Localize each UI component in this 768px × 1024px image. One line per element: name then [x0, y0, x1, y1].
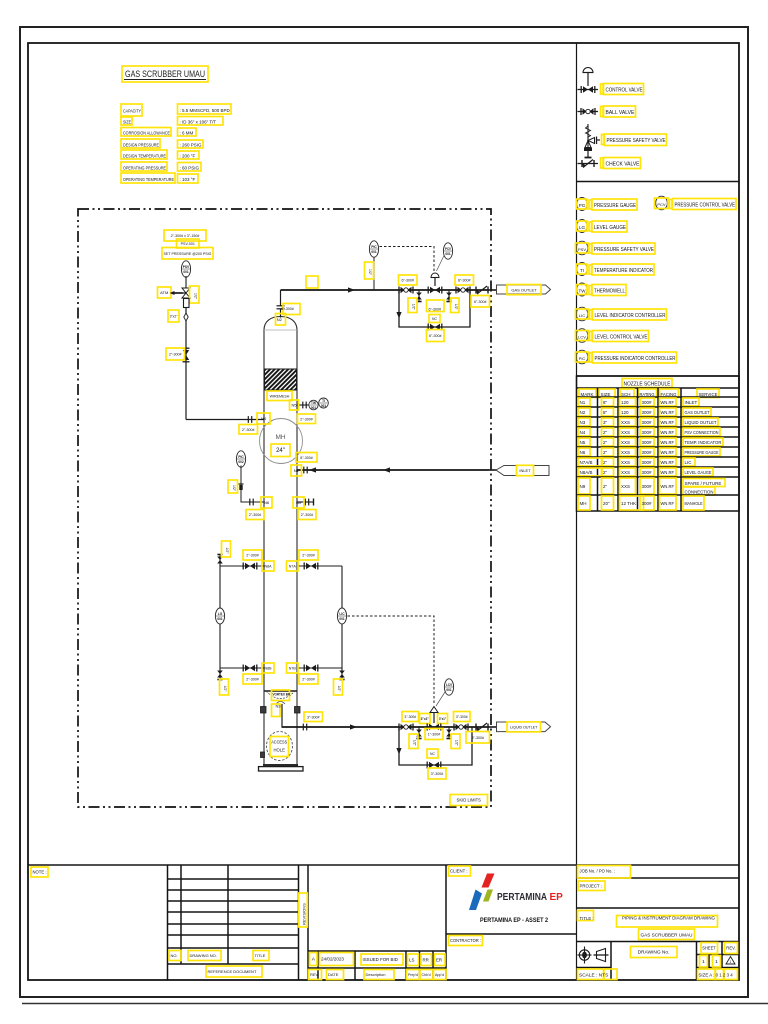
PSV tag label	[177, 239, 200, 248]
revisions vertical caption	[299, 893, 308, 927]
svg-text:GAS OUTLET: GAS OUTLET	[685, 410, 710, 415]
svg-text:3": 3"	[603, 420, 608, 425]
svg-text:SIZE A : 0 1 2 3 4: SIZE A : 0 1 2 3 4	[699, 973, 734, 978]
svg-text:2"-300#: 2"-300#	[169, 353, 181, 357]
svg-text:2"-300#: 2"-300#	[300, 417, 312, 421]
legend divider 2	[577, 375, 740, 377]
instrument bubble PIC-001	[369, 241, 378, 257]
gate valve gas bypass	[428, 324, 442, 331]
drain label half inch liquid right	[451, 734, 460, 749]
svg-text:2": 2"	[603, 430, 608, 435]
svg-text:001: 001	[311, 406, 317, 410]
N3 size label 3"-300#	[304, 712, 323, 722]
svg-text:1: 1	[715, 959, 718, 965]
N6 size label 2"-300#	[246, 510, 264, 520]
nozzle schedule header underline	[577, 396, 740, 398]
drain label half inch liquid left	[409, 734, 418, 749]
size scale caption	[698, 969, 738, 980]
wiremesh label	[267, 391, 292, 401]
check valve gas	[476, 286, 488, 294]
svg-text:MANHOLE: MANHOLE	[685, 501, 703, 506]
svg-text:N9: N9	[296, 500, 302, 505]
svg-text:300#: 300#	[642, 460, 653, 465]
legend bubble TI	[577, 263, 588, 276]
legend label PRESSURE GAUGE	[589, 199, 637, 210]
svg-text:PIC: PIC	[238, 455, 244, 459]
wire LIC standpipe	[341, 566, 343, 668]
svg-text:TI: TI	[322, 399, 325, 403]
drain gas left	[416, 290, 422, 302]
spec row SIZE	[121, 117, 223, 126]
nozzle row N4	[578, 428, 720, 436]
svg-text:DATE: DATE	[328, 972, 339, 977]
svg-text:CONTROL VALVE: CONTROL VALVE	[606, 88, 644, 94]
gate valve N7B	[304, 665, 318, 672]
svg-text:20": 20"	[603, 501, 610, 506]
svg-text:N5: N5	[291, 403, 297, 408]
svg-text:1"-300#: 1"-300#	[428, 733, 440, 737]
vessel top dome	[264, 317, 297, 331]
drain label half inch gas left	[408, 298, 417, 313]
flow arrow liquid	[350, 724, 357, 729]
svg-text:CAPACITY: CAPACITY	[123, 109, 141, 114]
legend label THERMOWELL	[589, 285, 626, 296]
node N5 label	[290, 400, 299, 410]
wire gas outlet header	[281, 289, 490, 291]
svg-text:CORROSION ALLOWANCE: CORROSION ALLOWANCE	[123, 131, 170, 136]
gate valve N8B	[243, 665, 257, 672]
wire liquid outlet header	[282, 726, 490, 728]
line label 2"-300# at N4	[239, 425, 258, 435]
svg-text:TITLE: TITLE	[255, 953, 266, 958]
svg-text:2": 2"	[603, 450, 608, 455]
half inch label PIC-002	[228, 480, 238, 493]
svg-text:1/2": 1/2"	[223, 686, 227, 693]
svg-text:REV.: REV.	[310, 972, 319, 977]
vortex breaker label	[272, 690, 290, 701]
spec row OPERATING TEMPERATURE	[121, 173, 198, 183]
svg-text:1/2": 1/2"	[337, 686, 341, 693]
svg-text:2"-300# x 3"-150#: 2"-300# x 3"-150#	[171, 234, 200, 238]
legend bubble PIC	[576, 350, 589, 364]
svg-text:WN.RF: WN.RF	[661, 400, 675, 405]
nozzle row line	[577, 456, 740, 458]
svg-text:1/2": 1/2"	[454, 304, 458, 311]
svg-text:2"-300#: 2"-300#	[302, 554, 314, 558]
wiremesh demister	[265, 369, 297, 390]
svg-text:SPARE / FUTURE: SPARE / FUTURE	[685, 481, 722, 486]
svg-text:PIC: PIC	[371, 245, 377, 249]
svg-text:002: 002	[238, 460, 244, 464]
svg-text:LIC: LIC	[339, 612, 345, 616]
svg-text:N8A: N8A	[265, 565, 273, 569]
instrument bubble PCV-001	[443, 243, 452, 259]
node N4 label	[257, 413, 270, 424]
legend label PRESSURE SAFETY VALVE	[602, 134, 667, 146]
svg-text:RATING: RATING	[640, 392, 655, 397]
node N9 label	[293, 497, 304, 508]
drain gas right	[446, 290, 452, 302]
svg-text:1: 1	[702, 959, 705, 965]
svg-text:SCALE : NTS: SCALE : NTS	[579, 973, 608, 979]
inlet pennant	[496, 466, 549, 476]
wire PIC-001 tap	[373, 255, 375, 290]
svg-text:DESIGN TEMPERATURE: DESIGN TEMPERATURE	[123, 154, 166, 159]
wire N8B stub	[220, 667, 264, 669]
ball valve liquid right	[454, 724, 468, 731]
reference header DRAWING NO.	[188, 951, 221, 961]
svg-text:001: 001	[339, 617, 345, 621]
svg-text:INLET: INLET	[519, 468, 531, 473]
svg-text:: 6 MM: : 6 MM	[180, 131, 194, 136]
drain liquid left	[416, 727, 422, 739]
label 6"-300# gas right	[455, 275, 474, 285]
spec row DESIGN PRESSURE	[121, 139, 203, 148]
legend check valve symbol	[578, 160, 599, 168]
svg-text:LIC: LIC	[685, 460, 693, 465]
gas outlet pennant	[497, 285, 551, 294]
svg-text:DRAWING No.: DRAWING No.	[638, 950, 670, 956]
node N7A label	[287, 561, 299, 571]
svg-text:6"-300#: 6"-300#	[429, 334, 441, 338]
svg-text:3"-300#: 3"-300#	[456, 715, 468, 719]
node N6 label	[261, 497, 272, 508]
svg-text:XXS: XXS	[621, 470, 630, 475]
svg-text:LEVEL CONTROL VALVE: LEVEL CONTROL VALVE	[595, 335, 649, 341]
svg-text:ATM: ATM	[160, 290, 168, 295]
svg-text:ACCESS: ACCESS	[271, 740, 287, 745]
svg-text:N7B: N7B	[289, 667, 297, 671]
LG drain label half inch	[220, 679, 229, 695]
N8B size label 2"-300#	[243, 674, 262, 684]
instrument bubble LIC-001	[337, 608, 346, 624]
svg-text:8": 8"	[603, 410, 608, 415]
legend control valve symbol	[578, 68, 599, 94]
label 3"-300# after liquid check valve	[466, 732, 490, 744]
nozzle row N8A/B	[578, 468, 713, 476]
legend bubble PCV	[655, 196, 669, 210]
vessel support tab right	[295, 707, 301, 714]
PSV set pressure label	[162, 248, 213, 260]
svg-text:SIZE: SIZE	[601, 392, 611, 397]
svg-text:300#: 300#	[642, 410, 653, 415]
access hole label	[270, 737, 289, 757]
drain liquid right	[446, 727, 452, 739]
LCV actuator	[430, 707, 438, 713]
scale caption	[578, 969, 618, 980]
N9 size label 2"-300#	[298, 510, 316, 520]
ball valve liquid left	[399, 724, 413, 731]
node N1 label	[291, 465, 302, 476]
svg-text:NC: NC	[430, 752, 435, 756]
svg-text:24": 24"	[276, 448, 285, 454]
leader PCV-001	[437, 256, 445, 272]
nozzle row N1	[578, 398, 699, 406]
N5 flange	[303, 402, 306, 409]
svg-text:300#: 300#	[642, 430, 653, 435]
svg-text:LEVEL GAUGE: LEVEL GAUGE	[685, 470, 712, 475]
legend label PRESSURE SAFETY VALVE (abbrev)	[589, 243, 655, 254]
instrument bubble LCV-001	[444, 679, 453, 695]
nozzle row N3	[578, 418, 718, 426]
svg-text:MARK: MARK	[581, 392, 594, 397]
svg-text:2": 2"	[603, 460, 608, 465]
vessel support tab left	[261, 707, 267, 714]
svg-text:NOTE :: NOTE :	[33, 870, 47, 875]
label 3"-300# liquid right	[454, 712, 471, 722]
svg-text:App'd: App'd	[435, 973, 444, 977]
svg-text:OPERATING PRESSURE: OPERATING PRESSURE	[123, 166, 166, 171]
client label	[449, 866, 471, 876]
node N3 label	[272, 704, 281, 717]
legend bubble LIC	[576, 307, 589, 321]
svg-text:JOB No. / PO No. :: JOB No. / PO No. :	[580, 868, 615, 873]
svg-text:3"x2": 3"x2"	[170, 315, 179, 319]
svg-text:LCV: LCV	[578, 335, 586, 340]
svg-text:: 103 °F: : 103 °F	[180, 177, 196, 182]
control valve LCV body	[427, 724, 441, 731]
svg-text:LIC: LIC	[579, 313, 585, 318]
svg-text:N2: N2	[277, 317, 283, 322]
svg-text:2": 2"	[603, 440, 608, 445]
svg-text:2": 2"	[603, 484, 608, 489]
ATM discharge arrow	[170, 291, 175, 295]
control valve PCV actuator	[431, 273, 439, 278]
nozzle row line	[577, 446, 740, 448]
svg-text:PSV CONNECTION: PSV CONNECTION	[685, 430, 719, 435]
svg-text:OPERATING TEMPERATURE: OPERATING TEMPERATURE	[123, 177, 174, 182]
label 6"-300# after check valve	[471, 296, 490, 308]
svg-text:1/2": 1/2"	[232, 485, 236, 492]
svg-text:6"-300#: 6"-300#	[474, 300, 486, 304]
N2 size label 8"-300#	[283, 304, 300, 315]
wire N7A stub	[297, 565, 342, 567]
svg-text:WN.RF: WN.RF	[661, 460, 675, 465]
svg-text:REV.: REV.	[726, 946, 735, 951]
drawing number caption	[631, 947, 678, 958]
svg-text:N9: N9	[580, 484, 586, 489]
node N8B label	[262, 663, 274, 673]
bypass corner arrow	[396, 312, 401, 319]
svg-text:XXS: XXS	[621, 420, 630, 425]
reducer label 3x1 left	[420, 714, 431, 724]
svg-text:SERVICE: SERVICE	[699, 392, 718, 397]
svg-text:: 5.5 MMSCFD, 500 BPD: : 5.5 MMSCFD, 500 BPD	[180, 108, 231, 113]
svg-text:1/2": 1/2"	[413, 740, 417, 747]
drawing title line 2	[639, 929, 695, 940]
spec row CAPACITY	[121, 104, 231, 116]
nozzle schedule title row line	[577, 387, 740, 389]
svg-text:1/2": 1/2"	[193, 293, 197, 300]
legend label PRESSURE INDICATOR CONTROLLER	[590, 352, 677, 363]
drain label half inch gas right	[451, 298, 460, 313]
svg-text:PERTAMINA EP - ASSET 2: PERTAMINA EP - ASSET 2	[480, 917, 548, 924]
svg-text:NC: NC	[432, 317, 437, 321]
nozzle schedule column lines	[598, 388, 682, 511]
nozzle row line	[577, 436, 740, 438]
gate valve N8A	[243, 563, 257, 570]
svg-text:ER: ER	[436, 957, 442, 962]
svg-text:300#: 300#	[642, 484, 653, 489]
svg-text:Prep'd: Prep'd	[408, 973, 418, 977]
svg-text:CLIENT :: CLIENT :	[450, 869, 468, 874]
svg-text:001: 001	[183, 270, 189, 274]
legend label CONTROL VALVE	[601, 84, 644, 95]
svg-text:N3: N3	[275, 704, 281, 709]
svg-text:RR: RR	[423, 957, 429, 962]
N9 flange	[305, 499, 308, 506]
liquid outlet pennant	[497, 722, 551, 732]
legend bubble LCV	[576, 329, 589, 343]
svg-text:SCH: SCH	[621, 392, 631, 397]
liquid outlet connector stub	[489, 726, 497, 728]
svg-text:Description: Description	[366, 972, 386, 977]
revision row A	[310, 953, 446, 966]
svg-text:WN.RF: WN.RF	[661, 450, 675, 455]
drawing title GAS SCRUBBER UMAU	[122, 66, 208, 82]
svg-text:N4: N4	[580, 430, 586, 435]
legend bubble PG	[577, 198, 588, 211]
svg-text:N4: N4	[261, 416, 267, 421]
svg-text:VORTEX BR.: VORTEX BR.	[273, 693, 292, 697]
svg-text:CHECK VALVE: CHECK VALVE	[606, 162, 641, 168]
legend bubble TW	[577, 283, 588, 296]
manhole MH circle	[260, 419, 303, 464]
spec row OPERATING PRESSURE	[121, 162, 201, 171]
svg-text:MH: MH	[275, 434, 285, 441]
svg-text:6"-300#: 6"-300#	[429, 307, 441, 311]
svg-text:EP: EP	[550, 892, 564, 903]
reference document caption	[206, 966, 262, 977]
gate valve liquid bypass	[427, 762, 441, 769]
svg-text:INLET: INLET	[685, 400, 698, 405]
reference document table	[168, 865, 309, 980]
empty highlight box on gas line	[306, 276, 318, 288]
N7A size label 2"-300#	[299, 550, 318, 560]
client/contractor divider	[446, 933, 577, 935]
node N7B label	[287, 663, 299, 673]
wire N8A stub	[220, 565, 264, 567]
pertamina logo mark green	[483, 890, 493, 902]
svg-text:WN.RF: WN.RF	[661, 430, 675, 435]
svg-text:GAS SCRUBBER UMAU: GAS SCRUBBER UMAU	[125, 69, 205, 80]
N8A size label 2"-300#	[243, 550, 262, 560]
drawing title line 1	[617, 916, 718, 928]
bypass corner arrow liquid	[396, 748, 401, 755]
svg-text:2"-300#: 2"-300#	[302, 678, 314, 682]
LG drain bottom	[217, 668, 223, 680]
right panel divider	[576, 43, 578, 980]
N6 flange	[250, 499, 253, 506]
svg-text:3"-300#: 3"-300#	[472, 736, 484, 740]
wire N9 stub	[297, 501, 313, 503]
signal line PIC-001 to PCV	[380, 247, 435, 272]
svg-text:LEVEL GAUGE: LEVEL GAUGE	[594, 225, 627, 231]
svg-text:XXS: XXS	[621, 450, 630, 455]
pertamina logo mark blue	[469, 890, 482, 911]
wire N3 outlet drop	[281, 704, 283, 727]
check valve liquid	[476, 723, 488, 731]
svg-text:3"-300#: 3"-300#	[404, 715, 416, 719]
svg-text:PRESSURE CONTROL VALVE: PRESSURE CONTROL VALVE	[675, 203, 736, 209]
svg-text:2"-300#: 2"-300#	[301, 513, 313, 517]
svg-text:TEMP. INDICATOR: TEMP. INDICATOR	[685, 440, 723, 445]
svg-text:PSV-001: PSV-001	[181, 242, 195, 246]
vessel small tab lower left	[261, 752, 265, 758]
svg-text:DESIGN PRESSURE: DESIGN PRESSURE	[123, 143, 159, 148]
svg-text:NO.: NO.	[171, 953, 178, 958]
nozzle row line	[577, 426, 740, 428]
svg-text:ISSUED FOR BID: ISSUED FOR BID	[363, 957, 398, 962]
svg-text:CONTRACTOR :: CONTRACTOR :	[450, 938, 481, 943]
svg-text:8"-300#: 8"-300#	[281, 307, 293, 311]
wire LG standpipe	[219, 566, 221, 668]
svg-text:2": 2"	[603, 470, 608, 475]
svg-text:: 60 PSIG: : 60 PSIG	[180, 166, 200, 171]
rev caption	[725, 943, 738, 954]
svg-text:3"-300#: 3"-300#	[431, 772, 443, 776]
instrument bubble TW-001	[309, 400, 318, 410]
svg-text:N3: N3	[580, 420, 586, 425]
svg-text:1/2": 1/2"	[412, 304, 416, 311]
spec row DESIGN TEMPERATURE	[121, 150, 199, 159]
legend label TEMPERATURE INDICATOR	[589, 264, 654, 275]
svg-text:PERTAMINA: PERTAMINA	[497, 892, 547, 903]
label 3"-300# liquid left	[402, 712, 419, 722]
PCV size label 6"-300#	[427, 300, 445, 312]
legend label LEVEL INDICATOR CONTROLLER	[590, 309, 667, 320]
svg-text:TW: TW	[579, 289, 587, 294]
svg-text:PRESSURE GAUGE: PRESSURE GAUGE	[685, 450, 719, 455]
svg-text:SIZE: SIZE	[123, 120, 131, 125]
svg-text:N1: N1	[294, 468, 300, 473]
svg-text:FACING: FACING	[661, 392, 677, 397]
nozzle schedule outer box	[577, 376, 740, 511]
svg-text:300#: 300#	[642, 400, 653, 405]
skid limits label	[450, 795, 488, 806]
svg-text:XXS: XXS	[621, 460, 630, 465]
svg-text:GAS SCRUBBER UMAU: GAS SCRUBBER UMAU	[641, 932, 693, 937]
svg-text:1/2": 1/2"	[225, 548, 229, 555]
nozzle row line	[577, 406, 740, 408]
svg-text:001: 001	[445, 252, 451, 256]
svg-text:MH: MH	[580, 501, 587, 506]
svg-text:SET PRESSURE @200 PSIG: SET PRESSURE @200 PSIG	[164, 252, 212, 256]
svg-text:300#: 300#	[642, 501, 653, 506]
NC label liquid bypass	[427, 749, 438, 758]
inlet label	[517, 465, 534, 475]
vessel V-01 shell	[264, 330, 297, 765]
legend pressure safety valve symbol	[584, 124, 600, 158]
svg-text:N8B: N8B	[265, 667, 273, 671]
label 6"-300# gas left	[399, 275, 418, 285]
svg-text:WN.RF: WN.RF	[661, 470, 675, 475]
svg-text:TW: TW	[311, 401, 316, 405]
bottom row cell lines	[577, 942, 740, 981]
spec row CORROSION ALLOWANCE	[121, 128, 196, 137]
nozzle row N2	[578, 408, 711, 416]
svg-text:XXS: XXS	[621, 430, 630, 435]
svg-text:PRESSURE SAFETY VALVE: PRESSURE SAFETY VALVE	[607, 138, 667, 144]
reducer label 3x1 right	[438, 714, 448, 724]
legend bubble LG	[577, 220, 588, 233]
svg-text:24/02/2023: 24/02/2023	[321, 957, 344, 962]
sheet numbers	[700, 956, 721, 968]
nozzle row line	[577, 466, 740, 468]
svg-text:PRESSURE GAUGE: PRESSURE GAUGE	[594, 203, 637, 209]
label 3"-300# liquid bypass	[428, 768, 446, 779]
svg-text:TEMPERATURE INDICATOR: TEMPERATURE INDICATOR	[594, 268, 653, 274]
